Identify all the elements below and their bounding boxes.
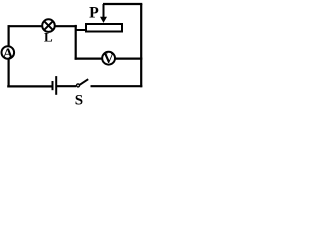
- wire: voltmeter branch left: [75, 57, 103, 59]
- wire: left vertical lower (ammeter to bottom corner): [8, 59, 10, 88]
- svg-text:P: P: [89, 5, 99, 22]
- wire: right vertical: [140, 4, 142, 87]
- wire: lamp to junction: [55, 25, 77, 27]
- wire: voltmeter branch right: [115, 57, 143, 59]
- battery: long plate: [55, 76, 57, 95]
- wire: left vertical upper (corner to ammeter): [8, 25, 10, 46]
- wire: top-right horizontal (wiper to right corner): [103, 3, 142, 5]
- battery: short plate: [52, 81, 54, 90]
- wire: top-left horizontal (corner to lamp): [9, 25, 44, 27]
- svg-text:L: L: [44, 30, 53, 45]
- switch S: blade: [80, 79, 89, 85]
- svg-text:V: V: [103, 51, 114, 67]
- voltmeter V: [102, 51, 115, 67]
- svg-text:S: S: [75, 93, 83, 109]
- rheostat P: wiper arrowhead: [100, 17, 107, 23]
- wire: bottom-left horizontal (corner to battery): [7, 85, 52, 87]
- lamp L: [42, 19, 55, 32]
- ammeter A: [2, 46, 15, 61]
- rheostat P: body: [86, 24, 122, 32]
- wire: switch to bottom-right corner: [91, 85, 143, 87]
- wire: junction vertical (top wire down to voltmeter branch): [75, 25, 77, 60]
- wire: battery to switch: [56, 85, 76, 87]
- rheostat P: wiper stem: [103, 4, 105, 18]
- switch S: pivot contact: [77, 84, 80, 87]
- wire: junction to rheostat left terminal: [76, 29, 85, 31]
